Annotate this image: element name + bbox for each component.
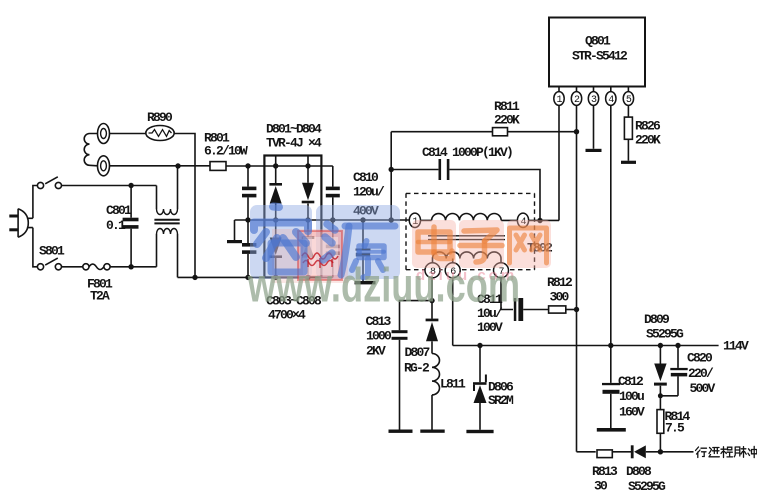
wire bottom AC line (62, 266, 83, 268)
svg-text:RG-2: RG-2 (404, 361, 430, 376)
watermark char yuan (323, 224, 395, 278)
wire T802 pin4 to IC pin1 (529, 219, 559, 221)
diode D803 lower-left (270, 238, 282, 256)
node C801 bottom (128, 264, 133, 269)
svg-text:220K: 220K (635, 133, 661, 148)
T802 core (428, 236, 505, 240)
wire fuse to filter (110, 266, 156, 268)
T802 pin 8 (425, 263, 440, 278)
pin 2 (571, 87, 581, 452)
resistor R812 (549, 306, 580, 313)
watermark char zi (460, 230, 502, 262)
node filter top right (175, 163, 180, 168)
114V rail (453, 345, 719, 347)
svg-text:Q801: Q801 (585, 34, 611, 49)
T802 primary winding (421, 213, 518, 220)
svg-text:STR-S5412: STR-S5412 (572, 49, 628, 64)
watermark pink block 2 (459, 220, 504, 268)
svg-text:120u/: 120u/ (353, 185, 385, 200)
svg-text:www.dziuu.com: www.dziuu.com (247, 260, 520, 313)
svg-text:TVR-4J ×4: TVR-4J ×4 (266, 136, 322, 151)
watermark pink block 3 (507, 220, 551, 268)
svg-text:C810: C810 (353, 170, 379, 185)
svg-text:R813: R813 (592, 464, 618, 479)
switch S801 bottom pole (37, 258, 61, 270)
T802 pin 1 (409, 213, 420, 227)
svg-text:0.1: 0.1 (106, 218, 126, 233)
svg-text:7.5: 7.5 (665, 421, 685, 436)
AC plug P801 (9, 209, 33, 238)
wire T802 pin8 down (431, 278, 433, 319)
capacitor C812 (597, 383, 626, 432)
svg-text:D801~D804: D801~D804 (266, 122, 322, 137)
svg-text:220/: 220/ (688, 366, 714, 381)
svg-text:S5295G: S5295G (646, 327, 684, 342)
wire connector to R890 (110, 133, 147, 135)
capacitor C811 (514, 298, 549, 321)
capacitor C813 (389, 330, 413, 433)
svg-text:6.2/10W: 6.2/10W (204, 144, 248, 159)
wire top AC line (62, 185, 157, 187)
svg-text:C813: C813 (366, 314, 392, 329)
bridge box D801-D804 (264, 156, 321, 278)
svg-text:160V: 160V (619, 405, 645, 420)
resistor R801 (210, 162, 333, 171)
svg-text:S5295G: S5295G (628, 479, 666, 494)
node R890 bottom (192, 275, 197, 280)
svg-text:R812: R812 (547, 275, 573, 290)
svg-text:1000: 1000 (366, 329, 392, 344)
svg-text:C812: C812 (618, 374, 644, 389)
svg-text:C801: C801 (106, 203, 132, 218)
watermark char rong (254, 207, 308, 273)
svg-text:C820: C820 (687, 351, 713, 366)
diode D809 (654, 346, 678, 399)
diode D804 lower-right (302, 236, 315, 239)
svg-text:100V: 100V (477, 320, 503, 335)
left rail of R811/C814 (390, 132, 392, 220)
svg-text:220K: 220K (494, 113, 520, 128)
svg-text:R890: R890 (147, 110, 173, 125)
pin 3 (586, 87, 602, 153)
diode D807 (426, 319, 439, 354)
svg-text:500V: 500V (690, 381, 716, 396)
watermark char dian (418, 227, 452, 259)
diode column right: D802 (302, 156, 315, 278)
fuse F801 (83, 264, 110, 270)
svg-text:T2A: T2A (90, 289, 110, 304)
capacitor C814 (391, 159, 540, 220)
wire plug to switches (33, 186, 37, 267)
snubber caps column right (326, 166, 340, 277)
label flyback pulse (CJK drawn) (696, 446, 757, 457)
snubber caps column left (C803-C808) (242, 166, 256, 277)
svg-text:R826: R826 (635, 119, 661, 134)
capacitor C810 (355, 220, 376, 284)
degaussing coil loops (84, 134, 97, 166)
wire degauss connector 2 to top rail (110, 165, 211, 167)
pin 4 (606, 87, 616, 383)
junction dots on rails (245, 163, 394, 280)
svg-text:2KV: 2KV (366, 344, 386, 359)
diode D808 (631, 445, 694, 458)
watermark red stamp (272, 229, 348, 283)
pin 1 (554, 87, 564, 221)
svg-text:D808: D808 (626, 464, 652, 479)
line filter L801 (154, 166, 179, 277)
svg-text:300: 300 (550, 290, 570, 305)
switch S801 top pole (37, 177, 61, 189)
watermark pink block 1 (412, 220, 456, 268)
resistor R811 (391, 128, 579, 136)
svg-text:S801: S801 (39, 244, 65, 259)
pin 5 (623, 87, 633, 118)
resistor R814 (657, 395, 664, 454)
bottom rail (178, 276, 333, 278)
svg-text:L811: L811 (440, 377, 466, 392)
zener D806 (466, 346, 493, 434)
capacitor C820 (670, 346, 687, 396)
resistor R813 (597, 450, 631, 458)
node C801 top (128, 183, 133, 188)
T802 dashed box (406, 193, 535, 269)
T802 secondary winding (433, 252, 502, 263)
svg-text:100u: 100u (619, 389, 644, 404)
degaussing coil connector top (98, 124, 110, 144)
posistor R890 (146, 126, 174, 141)
wire T802 pin7 to C811 (501, 278, 513, 310)
svg-text:114V: 114V (723, 339, 749, 354)
svg-text:C814 1000P(1KV): C814 1000P(1KV) (422, 145, 512, 160)
svg-text:D807: D807 (405, 345, 430, 360)
middle rail (bridge output to T802) (235, 219, 410, 221)
T802 pin 6 (445, 263, 460, 278)
capacitor C801 (123, 186, 139, 267)
T802 pin 4 (517, 213, 528, 227)
svg-text:30: 30 (594, 479, 608, 494)
bottom feedback line (577, 451, 596, 453)
T802 pin 7 (494, 263, 509, 278)
IC Q801 STR-S5412 (549, 18, 645, 87)
svg-text:D809: D809 (644, 312, 670, 327)
diode column left: D801 (269, 156, 282, 278)
watermark blue block 1 (250, 205, 312, 279)
resistor R826 (621, 117, 636, 164)
inductor L811 (420, 354, 444, 433)
wire to C813 (400, 301, 433, 331)
watermark blue block 2 (316, 205, 400, 279)
degaussing coil connector bottom (98, 156, 110, 176)
primary ground stub left (227, 220, 242, 243)
wire R890 to bottom rail (174, 134, 195, 278)
svg-text:SR2M: SR2M (488, 393, 514, 408)
watermark char wang (510, 228, 547, 263)
wire T802 pin6 down to 114V rail (452, 278, 454, 346)
